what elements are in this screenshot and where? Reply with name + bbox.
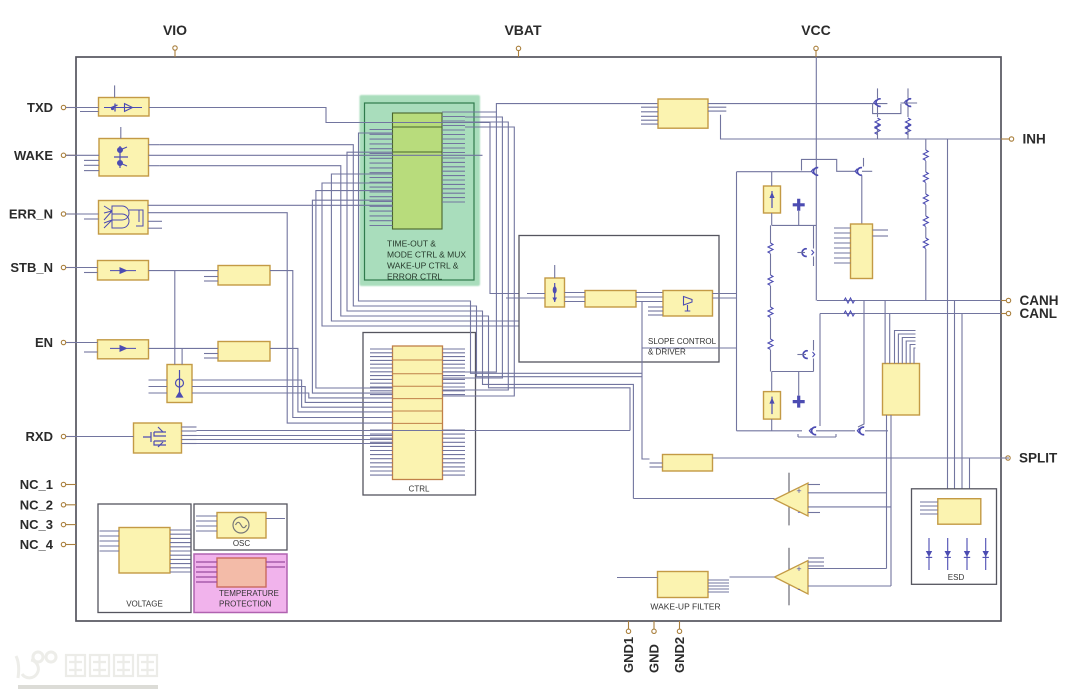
block STB_N input filter: [98, 261, 149, 281]
wire CANH net: [817, 298, 1001, 303]
wire bus east vertical 4: [443, 127, 515, 396]
wire ESD feeds: [948, 139, 970, 499]
wire lower mirror link: [772, 371, 814, 373]
wire WAKE input: [66, 154, 99, 156]
pin NC_3: [61, 522, 76, 526]
svg-text:WAKE: WAKE: [14, 148, 53, 163]
svg-text:SPLIT: SPLIT: [1019, 451, 1058, 466]
transistor Q2: [900, 88, 917, 139]
wire TXD input: [66, 107, 99, 109]
watermark bottom strip: [18, 685, 158, 689]
wire gate bridge Q3 Q4: [802, 159, 856, 171]
wire INH net: [721, 115, 1002, 139]
wire slope inputs: [506, 297, 545, 299]
comparator receiver: [775, 473, 821, 526]
current source I3: [764, 392, 781, 431]
watermark logo: [8, 646, 488, 686]
wire CTRL left pins upper: [370, 349, 393, 395]
block VOLTAGE regulator box: [98, 504, 191, 613]
svg-text:CANL: CANL: [1020, 306, 1058, 321]
block predriver upper: [834, 224, 888, 279]
current source I1: [545, 265, 565, 307]
wire EN input: [66, 342, 98, 344]
wire bus east vertical 2: [443, 117, 503, 378]
transistor Q5: [797, 225, 813, 266]
resistor chain to CANH: [923, 139, 928, 301]
pin NC_4: [61, 542, 76, 546]
wire EN link: [149, 347, 219, 349]
svg-text:OSC: OSC: [233, 539, 251, 548]
wire VCC rail down: [815, 57, 817, 301]
svg-text:ERR_N: ERR_N: [9, 207, 53, 222]
svg-text:MODE CTRL & MUX: MODE CTRL & MUX: [387, 250, 466, 260]
wire STB_N link: [149, 270, 219, 272]
pin EN: [61, 340, 76, 344]
diode D1: [926, 538, 932, 570]
svg-text:& DRIVER: & DRIVER: [648, 348, 686, 357]
svg-text:TXD: TXD: [27, 100, 53, 115]
wire WAKE net joins east bus: [149, 154, 483, 156]
diode D3: [964, 538, 970, 570]
pin WAKE: [61, 153, 76, 157]
wire CTRL right pins lower: [443, 430, 466, 475]
wire bus inner wrap loops to east: [160, 133, 642, 499]
wire lower gate step: [798, 436, 836, 438]
block ERR_N output stage: [99, 201, 149, 235]
wire gate feed Q1: [708, 103, 887, 105]
pin INH: [1001, 137, 1014, 141]
wire comparator output to CTRL: [633, 498, 774, 500]
svg-text:RXD: RXD: [26, 429, 53, 444]
block slope filter: [585, 291, 636, 308]
svg-text:GND2: GND2: [672, 637, 687, 673]
diode D2: [945, 538, 951, 570]
diode D4: [983, 538, 989, 570]
wire output stage left rail: [736, 172, 738, 431]
comparator wake: [775, 548, 825, 606]
block bandgap reference: [167, 365, 192, 403]
transistor Q6: [809, 427, 816, 435]
block driver: [663, 291, 713, 317]
block mode control outline: [365, 103, 475, 280]
svg-text:WAKE-UP CTRL &: WAKE-UP CTRL &: [387, 261, 459, 271]
wire mode control to INH driver: [496, 104, 658, 112]
wire CANH to receiver tap: [858, 301, 864, 428]
wire branch to output rail: [642, 347, 737, 349]
pin GND1: [626, 621, 630, 634]
block WAKE-UP FILTER: [617, 572, 729, 598]
block slope control box: [519, 236, 719, 363]
svg-text:ERROR CTRL: ERROR CTRL: [387, 272, 443, 282]
wire RXD input: [66, 436, 134, 438]
pin VIO: [173, 46, 177, 57]
wire STB_N stubs: [204, 276, 218, 278]
wire ERR_N stubs right: [148, 220, 162, 222]
wire bandgap feeds: [174, 271, 176, 365]
wire driver outputs to stage: [713, 293, 737, 295]
block RXD output stage: [134, 423, 182, 453]
pin NC_1: [61, 482, 76, 486]
wire TXD route east to slope control: [149, 108, 545, 294]
highlight green overlay: [360, 95, 481, 286]
wire STB_N input: [66, 267, 98, 269]
svg-text:+: +: [796, 564, 801, 574]
wire SPLIT net: [713, 457, 1010, 459]
block mode control core: [393, 113, 443, 229]
block SPLIT driver: [650, 455, 713, 472]
pin NC_2: [61, 503, 76, 507]
block STB_N logic: [218, 266, 270, 286]
transistor Q5b: [797, 340, 814, 372]
svg-text:WAKE-UP FILTER: WAKE-UP FILTER: [650, 602, 720, 612]
svg-text:INH: INH: [1023, 132, 1046, 147]
wire EN stubs: [204, 353, 218, 355]
wire comparator2 inputs: [808, 568, 887, 570]
wire mode control right pins upper: [442, 112, 465, 153]
pin ERR_N: [61, 212, 76, 216]
pin GND: [652, 621, 656, 634]
wire bus east vertical 1: [443, 112, 497, 372]
svg-text:NC_2: NC_2: [20, 497, 53, 512]
svg-text:VIO: VIO: [163, 22, 187, 38]
svg-text:VCC: VCC: [801, 22, 831, 38]
block TXD input stage: [99, 85, 150, 116]
svg-text:TIME-OUT &: TIME-OUT &: [387, 239, 436, 249]
svg-text:GND: GND: [647, 644, 662, 673]
transistor Q1: [874, 88, 881, 139]
svg-text:NC_4: NC_4: [20, 537, 54, 552]
wire CANL net: [820, 311, 1001, 426]
wire receiver outputs down: [887, 415, 892, 586]
pin VCC: [814, 46, 818, 57]
wire RXD data line: [197, 430, 631, 432]
wire ERR_N to mode control: [148, 204, 393, 206]
pin RXD: [61, 434, 76, 438]
svg-text:GND1: GND1: [621, 637, 636, 673]
svg-text:CTRL: CTRL: [409, 485, 430, 494]
wire bus outer loops into CTRL: [148, 191, 393, 424]
wire WAKE stubs right: [149, 144, 160, 146]
svg-text:VBAT: VBAT: [504, 22, 542, 38]
wire bus east vertical 3: [443, 122, 509, 390]
node plus upper: [793, 199, 805, 226]
wire slope to split: [642, 302, 650, 460]
wire ERR_N input: [66, 213, 99, 215]
block EN input filter: [98, 340, 149, 359]
wire RXD aux lines to CTRL: [197, 435, 393, 437]
svg-text:NC_3: NC_3: [20, 517, 53, 532]
svg-text:EN: EN: [35, 335, 53, 350]
svg-text:STB_N: STB_N: [10, 260, 53, 275]
pin STB_N: [61, 265, 76, 269]
svg-text:VOLTAGE: VOLTAGE: [126, 600, 163, 609]
wire comparator1 inputs: [808, 492, 887, 494]
block OSC oscillator box: [194, 504, 287, 550]
wire CTRL right pins upper: [443, 349, 466, 395]
pin CANL: [1001, 311, 1011, 315]
block receiver input: [883, 301, 920, 416]
wire slope links: [565, 292, 586, 294]
chip boundary box: [76, 57, 1001, 621]
block EN logic: [218, 342, 270, 362]
svg-text:SLOPE CONTROL: SLOPE CONTROL: [648, 337, 717, 346]
pin GND2: [677, 621, 681, 634]
wire CTRL left pins lower: [370, 430, 393, 475]
wire comparator2 output: [730, 576, 775, 578]
resistor chain mid: [768, 225, 773, 371]
wire mode control right pins lower: [442, 158, 465, 202]
svg-text:+: +: [796, 486, 801, 496]
wire upper mirror link: [772, 224, 817, 226]
transistor Q3: [811, 168, 818, 176]
pin VBAT: [516, 46, 520, 57]
current source I2: [764, 172, 781, 226]
wire mode control left pins: [370, 130, 393, 226]
svg-text:TEMPERATURE: TEMPERATURE: [219, 589, 279, 598]
svg-text:ESD: ESD: [948, 573, 965, 582]
block WAKE input stage: [99, 127, 149, 176]
block CTRL box: [363, 333, 476, 496]
block TEMPERATURE PROTECTION box: [194, 554, 287, 613]
transistor Q4: [855, 158, 872, 224]
wire cross-couple hat: [873, 104, 901, 114]
svg-text:PROTECTION: PROTECTION: [219, 600, 272, 609]
svg-text:-: -: [798, 584, 801, 594]
pin CANH: [1001, 298, 1011, 302]
wire RXD output pins: [182, 426, 197, 428]
block INH driver: [641, 99, 726, 128]
transistor Q7: [816, 427, 888, 435]
wire driver stubs: [648, 306, 663, 308]
svg-text:NC_1: NC_1: [20, 477, 53, 492]
pin SPLIT: [1001, 456, 1010, 460]
svg-text:-: -: [798, 507, 801, 517]
block ESD box: [912, 489, 997, 585]
pin TXD: [61, 105, 76, 109]
node plus lower: [793, 372, 805, 408]
